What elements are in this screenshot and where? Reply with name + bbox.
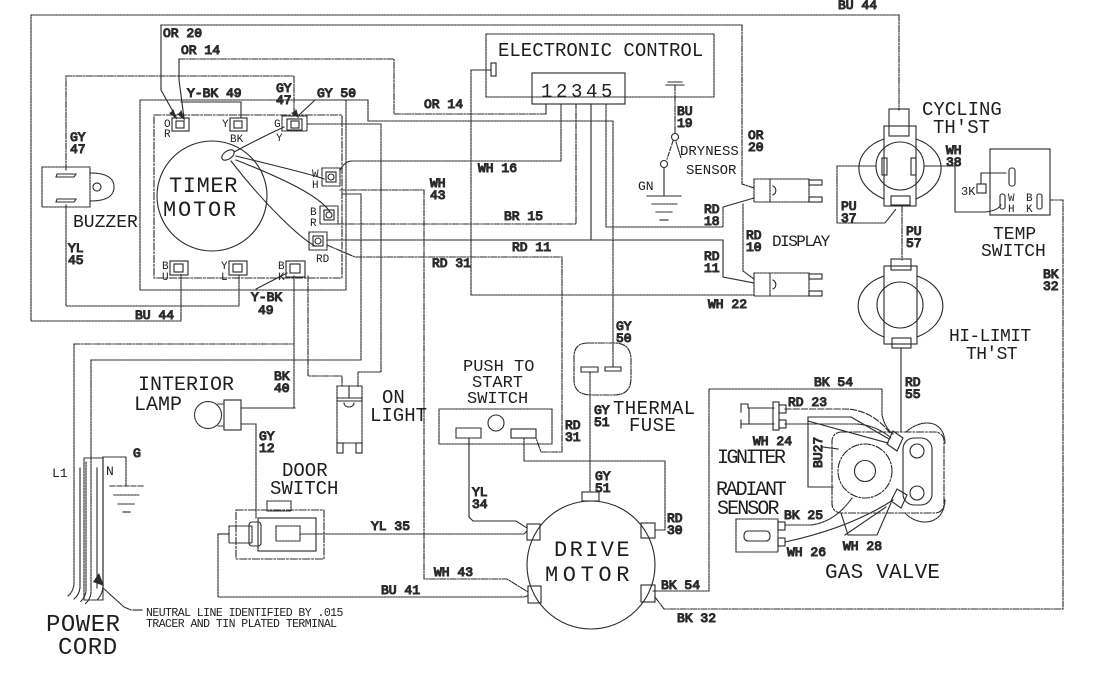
svg-text:L: L bbox=[221, 272, 228, 284]
svg-text:SWITCH: SWITCH bbox=[270, 478, 338, 500]
buzzer bbox=[42, 167, 114, 207]
svg-text:L1: L1 bbox=[52, 466, 68, 481]
wire GY 47 (buzzer to timer G-Y terminal) bbox=[66, 76, 294, 170]
svg-text:IGNITER: IGNITER bbox=[717, 447, 786, 470]
terminal W-H (timer) bbox=[322, 168, 340, 186]
svg-text:11: 11 bbox=[704, 261, 720, 276]
svg-text:GY 50: GY 50 bbox=[317, 86, 356, 101]
svg-text:12: 12 bbox=[259, 441, 275, 456]
svg-text:BU 44: BU 44 bbox=[838, 0, 877, 13]
electronic control box bbox=[486, 34, 714, 97]
terminal Y-BK (timer) bbox=[230, 118, 247, 131]
terminal B-R (timer) bbox=[320, 206, 338, 224]
svg-text:R: R bbox=[164, 129, 171, 141]
svg-text:DISPLAY: DISPLAY bbox=[772, 233, 831, 251]
wire BU 44 (top border run, left border, bottom run to timer B/U) bbox=[31, 15, 899, 321]
wire RD 18 (electronic control pin 5 to display) bbox=[606, 104, 754, 227]
svg-text:5: 5 bbox=[601, 81, 612, 103]
wire YL 35 (door switch to drive motor) bbox=[300, 531, 527, 534]
wire GY 12 (interior lamp to door switch) bbox=[241, 424, 256, 518]
svg-text:OR 14: OR 14 bbox=[181, 43, 220, 58]
svg-text:H: H bbox=[312, 180, 319, 192]
svg-text:G: G bbox=[274, 119, 281, 131]
svg-text:RD 23: RD 23 bbox=[788, 395, 827, 410]
svg-text:H: H bbox=[1008, 204, 1015, 216]
svg-text:N: N bbox=[106, 464, 114, 479]
wire BK 32 (drive motor to temp switch) bbox=[655, 200, 1063, 609]
svg-text:4: 4 bbox=[586, 81, 597, 103]
wire L1 run bbox=[74, 343, 294, 345]
svg-text:BR 15: BR 15 bbox=[504, 209, 543, 224]
wire WH 38 (cycling to temp switch) bbox=[924, 166, 1001, 212]
wire YL 45 (buzzer to timer Y-L terminal) bbox=[66, 205, 239, 306]
svg-text:18: 18 bbox=[704, 214, 720, 229]
svg-text:R: R bbox=[310, 218, 317, 230]
svg-text:K: K bbox=[278, 272, 285, 284]
electronic control connector 1-5 bbox=[532, 73, 625, 104]
wire BK 40 (timer B-K to interior lamp) bbox=[293, 276, 295, 408]
wire RD 30 (push-to-start to drive motor) bbox=[524, 438, 665, 530]
svg-text:47: 47 bbox=[70, 142, 86, 157]
hi-limit thermostat bbox=[858, 259, 943, 348]
svg-text:SWITCH: SWITCH bbox=[467, 390, 528, 409]
wire GY 51 (thermal fuse to drive motor) bbox=[589, 373, 591, 492]
interior lamp bbox=[195, 400, 242, 430]
svg-text:Y: Y bbox=[276, 133, 283, 145]
wire RD 31 (timer RD to push-to-start switch) bbox=[327, 245, 562, 452]
terminal B-U (timer) bbox=[170, 261, 188, 275]
svg-text:DRIVE: DRIVE bbox=[554, 538, 632, 563]
ground GN bbox=[647, 196, 681, 220]
svg-text:CORD: CORD bbox=[58, 635, 118, 662]
drive motor bbox=[527, 501, 655, 629]
svg-text:Y: Y bbox=[222, 119, 229, 131]
wire BR 15 (timer B-R to electronic control pin 3) bbox=[338, 104, 576, 224]
temp switch bbox=[977, 149, 1050, 215]
svg-text:WH 26: WH 26 bbox=[787, 545, 826, 560]
svg-text:BK 54: BK 54 bbox=[661, 578, 700, 593]
wire YL 34 (push-to-start to drive motor) bbox=[469, 438, 527, 528]
svg-text:34: 34 bbox=[472, 497, 488, 512]
radiant sensor bbox=[736, 519, 785, 552]
wire BU27 bracket at gas valve coil bbox=[808, 417, 851, 487]
svg-text:MOTOR: MOTOR bbox=[163, 198, 238, 223]
push to start switch bbox=[439, 409, 552, 444]
timer motor enclosure (dotted) bbox=[140, 100, 346, 290]
node ground G (power cord) bbox=[103, 457, 143, 512]
electronic control sensor pin (T) bbox=[666, 82, 684, 133]
svg-text:20: 20 bbox=[748, 140, 764, 155]
terminal B-K (timer) bbox=[286, 261, 305, 277]
svg-text:SENSOR: SENSOR bbox=[686, 163, 737, 179]
svg-text:BK 54: BK 54 bbox=[814, 375, 853, 390]
svg-text:1: 1 bbox=[541, 81, 552, 103]
svg-text:BK 32: BK 32 bbox=[677, 611, 716, 626]
wire RD 23 (igniter to gas valve) bbox=[785, 409, 890, 433]
cycling thermostat bbox=[859, 109, 941, 206]
svg-text:U: U bbox=[162, 272, 169, 284]
timer wiper curve to W-H bbox=[236, 156, 324, 179]
svg-text:HI-LIMIT: HI-LIMIT bbox=[949, 327, 1031, 347]
wires converging to gas valve top tab bbox=[808, 417, 889, 443]
terminal motor left upper bbox=[527, 524, 540, 540]
svg-text:BUZZER: BUZZER bbox=[73, 213, 138, 233]
svg-text:WH 43: WH 43 bbox=[434, 565, 473, 580]
power cord bbox=[68, 344, 104, 604]
svg-text:51: 51 bbox=[595, 481, 611, 496]
wire WH 26 (radiant sensor to gas valve) bbox=[785, 500, 893, 542]
wire WH 43 (timer W-H to drive motor) bbox=[340, 190, 528, 592]
svg-text:OR 20: OR 20 bbox=[163, 26, 202, 41]
wire BU 41 (door switch to drive motor) bbox=[218, 534, 527, 597]
gas valve lower housing bbox=[841, 503, 891, 535]
svg-text:WH 28: WH 28 bbox=[843, 539, 882, 554]
svg-text:43: 43 bbox=[430, 188, 446, 203]
wire RD 11 (timer RD to display) bbox=[327, 104, 754, 283]
note leader (neutral line note) bbox=[103, 588, 142, 610]
svg-text:WH 22: WH 22 bbox=[708, 297, 747, 312]
svg-text:BU 44: BU 44 bbox=[135, 308, 174, 323]
timer wiper curve to RD bbox=[231, 161, 315, 246]
timer motor box bbox=[154, 115, 342, 278]
svg-text:MOTOR: MOTOR bbox=[545, 563, 634, 588]
svg-text:YL 35: YL 35 bbox=[371, 519, 410, 534]
display connector lower bbox=[754, 273, 822, 296]
svg-text:BK 25: BK 25 bbox=[784, 508, 823, 523]
svg-text:RD: RD bbox=[316, 254, 330, 266]
terminal RD (timer) bbox=[309, 232, 327, 250]
thermal fuse bbox=[574, 343, 631, 395]
svg-text:TH'ST: TH'ST bbox=[933, 117, 990, 139]
svg-text:BU 41: BU 41 bbox=[381, 583, 420, 598]
svg-text:57: 57 bbox=[906, 236, 922, 251]
svg-text:10: 10 bbox=[746, 240, 762, 255]
svg-text:45: 45 bbox=[68, 253, 84, 268]
on light bbox=[337, 386, 362, 453]
svg-text:19: 19 bbox=[677, 116, 693, 131]
wire RD 10 (between display connectors) bbox=[743, 204, 754, 279]
svg-text:GAS VALVE: GAS VALVE bbox=[825, 562, 940, 585]
svg-text:3K: 3K bbox=[961, 185, 976, 199]
svg-text:BU27: BU27 bbox=[811, 437, 826, 468]
svg-text:BK: BK bbox=[230, 134, 244, 146]
svg-text:SENSOR: SENSOR bbox=[717, 498, 780, 521]
svg-text:51: 51 bbox=[594, 415, 610, 430]
svg-text:31: 31 bbox=[565, 430, 581, 445]
terminal motor right upper bbox=[641, 523, 655, 538]
timer cam follower bbox=[220, 148, 236, 163]
svg-text:55: 55 bbox=[905, 387, 921, 402]
svg-text:TH'ST: TH'ST bbox=[966, 345, 1018, 365]
wire WH 24 (igniter to gas valve) bbox=[785, 424, 891, 438]
door switch bbox=[218, 501, 324, 559]
gas valve terminal tab bottom bbox=[891, 489, 907, 508]
wire BK 25 (radiant sensor to gas valve coil) bbox=[785, 498, 852, 525]
wire G-Y to ON LIGHT right terminal bbox=[308, 124, 381, 387]
svg-text:G: G bbox=[133, 446, 141, 461]
svg-text:49: 49 bbox=[258, 303, 274, 318]
gas valve outer casing arcs bbox=[905, 423, 945, 522]
terminal motor top bbox=[582, 492, 599, 501]
wire Y-BK 49 (top) bbox=[181, 102, 241, 118]
svg-text:30: 30 bbox=[667, 523, 683, 538]
wire interior lamp to neutral bbox=[241, 407, 295, 409]
wire PU 57 (cycling to hi-limit) bbox=[901, 207, 903, 260]
svg-text:3: 3 bbox=[571, 81, 582, 103]
wire OR 20 bbox=[161, 25, 754, 188]
svg-text:GN: GN bbox=[638, 179, 654, 194]
svg-text:SWITCH: SWITCH bbox=[981, 242, 1046, 262]
wire GY 50 (to thermal fuse) bbox=[292, 100, 613, 367]
terminal motor right lower bbox=[641, 585, 655, 602]
svg-text:40: 40 bbox=[274, 381, 290, 396]
svg-text:32: 32 bbox=[1043, 279, 1059, 294]
svg-text:2: 2 bbox=[556, 81, 567, 103]
dryness sensor contacts bbox=[661, 134, 682, 196]
terminal G-Y (timer) bbox=[282, 116, 307, 131]
svg-text:DRYNESS: DRYNESS bbox=[680, 144, 739, 160]
wire timer B-K to ON LIGHT left terminal bbox=[308, 276, 342, 387]
svg-text:LAMP: LAMP bbox=[134, 394, 182, 417]
display connector upper bbox=[754, 179, 822, 202]
wire PU 37 (cycling thermostat left loop) bbox=[837, 166, 896, 223]
wire stub at x361 bbox=[343, 194, 361, 360]
wire BK 54 (drive motor to gas valve) bbox=[653, 389, 893, 591]
terminal motor left lower bbox=[528, 586, 541, 603]
svg-text:Y-BK 49: Y-BK 49 bbox=[187, 86, 242, 101]
igniter bbox=[741, 402, 786, 430]
terminal O-R (timer) bbox=[172, 118, 189, 131]
svg-text:38: 38 bbox=[946, 155, 962, 170]
svg-text:ELECTRONIC CONTROL: ELECTRONIC CONTROL bbox=[498, 40, 703, 62]
gas valve body bbox=[832, 432, 944, 513]
wire RD 55 (hi-limit to gas valve) bbox=[900, 348, 902, 432]
terminal Y-L (timer) bbox=[229, 261, 247, 275]
wire WH 16 (timer W-H to electronic control pin 2) bbox=[340, 104, 561, 170]
svg-text:RD 31: RD 31 bbox=[432, 256, 471, 271]
svg-text:LIGHT: LIGHT bbox=[370, 405, 427, 427]
timer wiper curve to G-Y bbox=[234, 127, 284, 152]
svg-text:TRACER AND TIN PLATED TERMINAL: TRACER AND TIN PLATED TERMINAL bbox=[146, 618, 337, 631]
svg-text:TIMER: TIMER bbox=[169, 174, 238, 199]
svg-text:K: K bbox=[1026, 204, 1033, 216]
svg-text:50: 50 bbox=[616, 331, 632, 346]
svg-text:WH 16: WH 16 bbox=[478, 161, 517, 176]
svg-text:OR 14: OR 14 bbox=[424, 97, 463, 112]
wire Y-BK 49 (bottom callout to B-K terminal) bbox=[256, 273, 287, 289]
wire WH 28 (gas valve bottom tab) bbox=[845, 507, 886, 535]
svg-text:RD 11: RD 11 bbox=[512, 240, 551, 255]
gas valve terminal tab top bbox=[887, 431, 903, 451]
wire OR 14 bbox=[178, 59, 546, 119]
svg-text:37: 37 bbox=[841, 211, 857, 226]
svg-text:FUSE: FUSE bbox=[629, 415, 676, 437]
wire N run (neutral) bbox=[91, 359, 361, 361]
gas valve coil left lead bbox=[823, 447, 838, 449]
electronic control left pin bbox=[471, 63, 496, 76]
timer motor circle bbox=[157, 141, 267, 251]
wire WH 22 (electronic control to display lower connector) bbox=[471, 70, 754, 295]
